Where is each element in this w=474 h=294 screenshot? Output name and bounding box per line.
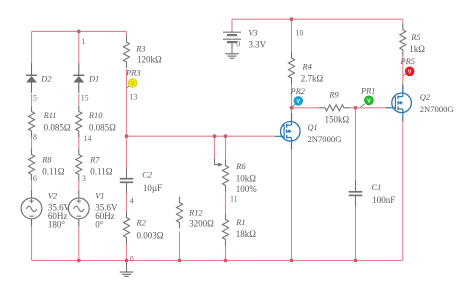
svg-text:C1: C1: [372, 183, 382, 192]
svg-text:R6: R6: [235, 162, 246, 171]
svg-text:0: 0: [130, 255, 134, 264]
svg-text:4: 4: [130, 196, 134, 205]
svg-text:150kΩ: 150kΩ: [325, 115, 350, 125]
svg-text:120kΩ: 120kΩ: [137, 55, 162, 65]
svg-text:11: 11: [230, 194, 238, 203]
svg-text:V: V: [297, 99, 301, 105]
svg-text:D2: D2: [40, 75, 51, 84]
svg-text:R12: R12: [188, 209, 203, 218]
svg-text:V1: V1: [95, 191, 104, 200]
svg-text:15: 15: [81, 94, 89, 103]
svg-text:8: 8: [33, 133, 37, 142]
svg-text:3.3V: 3.3V: [248, 39, 266, 49]
svg-text:V3: V3: [248, 28, 257, 37]
svg-text:100%: 100%: [236, 184, 257, 194]
svg-text:PR2: PR2: [290, 87, 305, 96]
svg-text:R5: R5: [410, 33, 420, 42]
svg-text:10: 10: [295, 28, 303, 37]
svg-text:R7: R7: [89, 156, 100, 165]
svg-text:0°: 0°: [95, 220, 104, 230]
svg-text:V: V: [408, 69, 412, 75]
svg-text:PR1: PR1: [360, 87, 375, 96]
svg-text:R11: R11: [43, 111, 57, 120]
svg-text:1kΩ: 1kΩ: [409, 44, 425, 54]
svg-text:2.7kΩ: 2.7kΩ: [301, 74, 324, 84]
svg-text:0.11Ω: 0.11Ω: [42, 166, 64, 176]
svg-text:R8: R8: [41, 156, 52, 165]
svg-text:0.085Ω: 0.085Ω: [89, 123, 116, 133]
svg-text:Q2: Q2: [420, 93, 430, 102]
svg-text:C2: C2: [142, 171, 152, 180]
svg-text:5: 5: [33, 94, 37, 103]
svg-text:18kΩ: 18kΩ: [236, 229, 256, 239]
svg-text:0: 0: [236, 40, 240, 49]
svg-text:R2: R2: [136, 219, 146, 228]
svg-text:3: 3: [82, 174, 86, 183]
svg-text:180°: 180°: [48, 220, 66, 230]
svg-text:R1: R1: [235, 218, 245, 227]
svg-text:R4: R4: [302, 63, 312, 72]
svg-text:10µF: 10µF: [143, 183, 162, 193]
svg-text:1: 1: [82, 37, 86, 46]
svg-text:0.003Ω: 0.003Ω: [137, 230, 164, 240]
svg-text:V2: V2: [48, 191, 57, 200]
svg-text:3200Ω: 3200Ω: [189, 219, 214, 229]
svg-text:10kΩ: 10kΩ: [236, 173, 256, 183]
svg-text:V: V: [367, 98, 371, 104]
svg-text:Q1: Q1: [308, 123, 318, 132]
svg-text:13: 13: [130, 93, 138, 102]
svg-text:R3: R3: [135, 45, 145, 54]
svg-text:R9: R9: [328, 91, 339, 100]
svg-text:14: 14: [84, 134, 92, 143]
svg-text:D1: D1: [88, 75, 99, 84]
svg-text:0.11Ω: 0.11Ω: [90, 166, 112, 176]
svg-text:0.085Ω: 0.085Ω: [44, 123, 71, 133]
svg-text:2N7000G: 2N7000G: [308, 134, 342, 144]
svg-text:R10: R10: [88, 111, 103, 120]
svg-text:6: 6: [33, 174, 37, 183]
svg-text:PR3: PR3: [125, 69, 140, 78]
svg-text:100nF: 100nF: [372, 195, 395, 205]
svg-text:2N7000G: 2N7000G: [420, 104, 454, 114]
svg-text:V: V: [131, 81, 135, 87]
svg-text:PR5: PR5: [400, 57, 415, 66]
